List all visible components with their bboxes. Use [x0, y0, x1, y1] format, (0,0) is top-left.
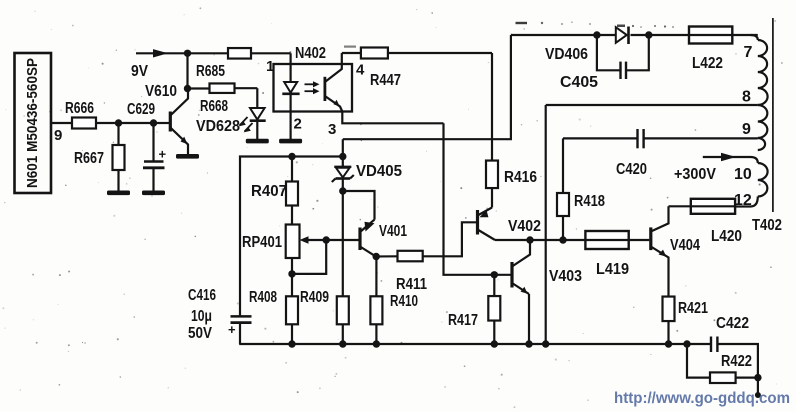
svg-text:C416: C416: [188, 287, 216, 304]
IC N601 M50436-560SP: [15, 53, 52, 193]
wire RP401 wiper to V401 base: [326, 239, 360, 241]
wire R666 to node: [96, 122, 119, 124]
svg-text:R685: R685: [196, 63, 225, 80]
resistor R411: [376, 251, 427, 293]
svg-text:R418: R418: [574, 193, 605, 210]
node R668 junction: [184, 85, 191, 92]
svg-text:R417: R417: [448, 312, 478, 329]
capacitor C422: [711, 315, 749, 352]
svg-text:9V: 9V: [131, 63, 148, 80]
svg-text:L419: L419: [596, 261, 629, 278]
wire C420 corner: [0, 0, 1, 1]
svg-text:R408: R408: [249, 289, 277, 306]
wire line A drop to V403 base: [444, 123, 511, 274]
wire stub below R422 node: [755, 378, 761, 398]
pin 7 label: [744, 44, 753, 61]
ground VD628: [246, 139, 269, 144]
transformer T402 winding 7-8-9: [751, 35, 768, 150]
LED VD628: [196, 108, 266, 139]
wire C422 to corner: [717, 344, 758, 378]
resistor R408: [249, 274, 298, 344]
svg-text:+300V: +300V: [674, 166, 717, 183]
svg-text:+: +: [159, 147, 167, 162]
wire line B drop to VD405 node: [342, 139, 344, 156]
pin 3 label: [328, 121, 336, 138]
opto LED: [282, 65, 299, 112]
capacitor C629 (polarized): [127, 101, 167, 191]
capacitor C420: [616, 129, 647, 178]
resistor R418: [557, 138, 605, 240]
watermark go-gddq.com: [614, 390, 790, 407]
svg-text:L422: L422: [692, 55, 723, 72]
transformer pin 9 wire: [563, 137, 758, 139]
svg-text:12: 12: [734, 192, 752, 209]
svg-text:+: +: [228, 322, 236, 337]
node rail pin8 drop: [542, 340, 549, 347]
wire pin8 drop: [545, 105, 547, 344]
svg-text:R416: R416: [504, 169, 537, 186]
label T402: [752, 217, 782, 234]
potentiometer RP401: [242, 225, 326, 259]
resistor R421: [663, 297, 709, 344]
svg-text:C629: C629: [127, 101, 155, 118]
svg-text:R447: R447: [370, 72, 401, 89]
svg-text:8: 8: [742, 89, 751, 106]
svg-text:T402: T402: [752, 217, 782, 234]
pin 1 label: [266, 58, 274, 75]
ground R667: [107, 191, 130, 196]
svg-text:RP401: RP401: [242, 234, 282, 251]
node V403 collector junction: [526, 236, 533, 243]
node rail R409: [339, 340, 346, 347]
pin 2 wire to ground: [291, 112, 302, 140]
pin 8 label: [742, 89, 751, 106]
wire VD405 node to V401 collector: [343, 191, 375, 220]
svg-text:4: 4: [356, 62, 365, 79]
wire pin3 line A: [342, 112, 443, 124]
diode VD406: [545, 27, 629, 64]
inductor L422: [689, 27, 732, 73]
svg-text:http://www.go-gddq.com: http://www.go-gddq.com: [614, 390, 790, 407]
opto phototransistor: [325, 65, 342, 112]
node rail C422: [683, 340, 690, 347]
node V401 emitter junction: [373, 253, 380, 260]
transformer T402 winding 10-12: [751, 157, 768, 207]
pin 9 label: [54, 127, 62, 144]
resistor R417: [448, 275, 500, 344]
wire C629 to V610 base: [154, 122, 170, 124]
resistor R422: [710, 353, 752, 383]
node C629 junction: [150, 119, 157, 126]
svg-text:R667: R667: [74, 150, 104, 167]
wire L419 to V404 base: [629, 239, 650, 241]
node VD405 top: [339, 153, 346, 160]
wire R422 loop: [687, 344, 758, 378]
svg-text:VD628: VD628: [196, 118, 240, 135]
resistor R407: [251, 157, 298, 225]
resistor R416: [486, 161, 537, 189]
pin 4 wire: [342, 53, 365, 79]
wire R416 to V402 emitter: [491, 188, 493, 208]
wire line B feedback: [343, 35, 511, 139]
scan smudges top band: [344, 22, 674, 48]
svg-text:9: 9: [54, 127, 62, 144]
node VD406 anode: [593, 31, 600, 38]
node R667 junction: [115, 119, 122, 126]
node R422 right junction: [754, 374, 761, 381]
capacitor C416 (polarized): [188, 287, 252, 342]
svg-text:V401: V401: [379, 223, 407, 240]
transistor V402 (PNP): [478, 208, 542, 241]
node rail R421: [665, 340, 672, 347]
resistor R409: [300, 289, 349, 344]
inductor L420: [691, 199, 742, 245]
node RP401 wiper junction: [323, 236, 330, 243]
wire pin9 to R666: [51, 122, 72, 124]
optocoupler N402 box: [274, 45, 353, 112]
node R407 top: [288, 153, 295, 160]
resistor R410: [370, 257, 418, 345]
node 9V rail / V610 collector: [184, 50, 191, 57]
wire R411 to V402 base: [423, 222, 477, 256]
svg-text:V404: V404: [670, 237, 700, 254]
svg-text:R407: R407: [251, 183, 287, 200]
bottom ground rail: [239, 343, 710, 345]
wire 9V node down to R668 node: [186, 53, 188, 89]
svg-text:9: 9: [742, 121, 751, 138]
svg-text:10: 10: [734, 166, 752, 183]
zener diode VD405: [332, 157, 403, 192]
node VD406 cathode: [645, 31, 652, 38]
node rail R408: [288, 340, 295, 347]
inductor L419: [585, 231, 629, 278]
transformer pin 8 wire: [546, 104, 758, 106]
node rail R410: [373, 340, 380, 347]
resistor R667: [74, 123, 125, 191]
svg-text:7: 7: [744, 44, 753, 61]
svg-text:1: 1: [266, 58, 274, 75]
svg-text:V403: V403: [549, 268, 582, 285]
svg-text:50V: 50V: [188, 325, 213, 342]
wire L420 to pin12: [735, 205, 750, 207]
svg-text:R422: R422: [721, 353, 752, 370]
pin 12 label: [734, 192, 752, 209]
node rail V403 emitter: [525, 340, 532, 347]
transformer core: [772, 18, 774, 212]
node RP401 bottom junction: [288, 270, 295, 277]
wire R668 to VD628: [235, 88, 258, 107]
svg-text:R409: R409: [300, 289, 329, 306]
pin 9 label T402: [742, 121, 751, 138]
svg-text:N601 M50436-560SP: N601 M50436-560SP: [24, 58, 41, 188]
svg-text:R421: R421: [678, 300, 708, 317]
resistor R666: [65, 100, 96, 129]
wire V402 collector line: [495, 239, 585, 241]
ground V610 emitter: [176, 154, 199, 159]
wire RP401 bottom: [291, 258, 293, 274]
svg-text:V610: V610: [145, 83, 177, 100]
resistor R668: [188, 83, 235, 115]
svg-text:R411: R411: [396, 276, 427, 293]
svg-text:C405: C405: [560, 74, 598, 91]
resistor R447: [361, 48, 401, 90]
svg-text:2: 2: [294, 116, 302, 133]
transistor V610: [145, 83, 188, 154]
wire V404 collector to L420: [669, 205, 691, 207]
svg-text:V402: V402: [508, 218, 541, 235]
node rail R417: [491, 340, 498, 347]
svg-text:L420: L420: [711, 228, 742, 245]
pin 10 label: [734, 166, 752, 183]
node V403 base junction: [491, 271, 498, 278]
ground C629: [142, 191, 165, 196]
wire node to node C629: [119, 122, 155, 124]
resistor R685: [196, 48, 251, 80]
transistor V403: [512, 240, 582, 344]
+300V arrow into pin 10: [674, 153, 751, 183]
opto light arrows: [305, 81, 320, 94]
svg-text:R666: R666: [65, 100, 94, 117]
svg-text:10μ: 10μ: [191, 308, 212, 325]
svg-text:R668: R668: [200, 98, 228, 115]
transistor V401: [360, 220, 407, 257]
node VD405 anode: [339, 187, 346, 194]
wire wiper to RP401 bottom: [292, 240, 326, 274]
svg-text:C420: C420: [616, 161, 647, 178]
wire R447 right + drop to R416: [388, 53, 492, 161]
svg-text:VD405: VD405: [356, 163, 402, 180]
wire top rail: [511, 34, 758, 36]
svg-text:N402: N402: [295, 45, 326, 62]
transistor V404: [651, 206, 701, 296]
capacitor C405: [560, 35, 649, 91]
wire R685 to N402 pin1: [251, 53, 291, 65]
svg-text:C422: C422: [716, 315, 749, 332]
svg-text:R410: R410: [390, 293, 418, 310]
wire VD405 node down to R409: [342, 191, 344, 296]
ground N402 pin2: [279, 139, 302, 144]
svg-text:VD406: VD406: [545, 46, 588, 63]
node R418 bottom junction: [559, 236, 566, 243]
svg-text:3: 3: [328, 121, 336, 138]
9V supply arrow: [131, 49, 228, 80]
wire line C reference rail: [240, 157, 343, 345]
